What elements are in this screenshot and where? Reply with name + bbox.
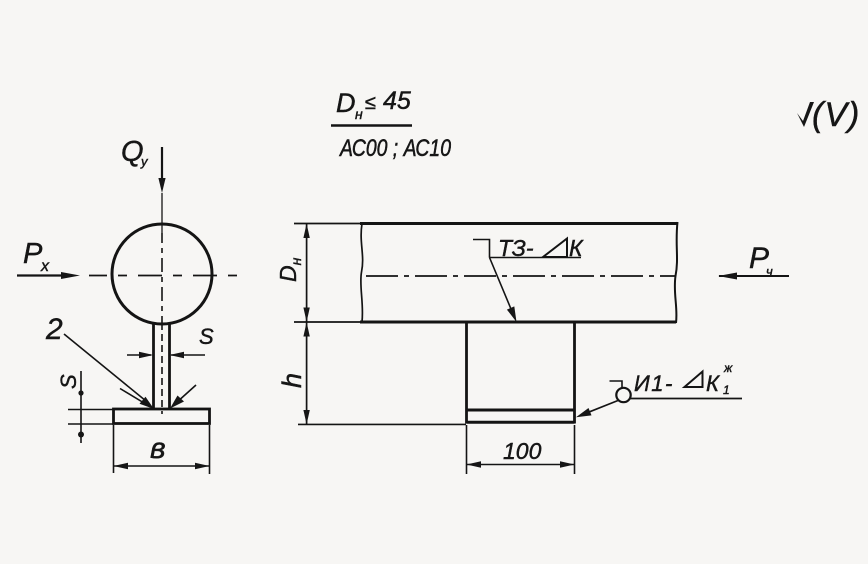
svg-text:К: К bbox=[706, 371, 720, 396]
svg-text:S: S bbox=[199, 324, 214, 349]
svg-text:1: 1 bbox=[723, 383, 730, 397]
svg-text:S: S bbox=[56, 374, 81, 389]
svg-text:К: К bbox=[569, 235, 584, 261]
svg-text:D: D bbox=[336, 88, 356, 118]
svg-text:х: х bbox=[40, 258, 50, 275]
svg-text:ж: ж bbox=[723, 361, 733, 375]
svg-text:2: 2 bbox=[45, 313, 63, 346]
svg-text:≤: ≤ bbox=[365, 92, 376, 114]
svg-text:И1-: И1- bbox=[634, 371, 674, 396]
svg-text:ТЗ-: ТЗ- bbox=[498, 235, 534, 261]
svg-text:100: 100 bbox=[503, 438, 542, 464]
svg-text:(V): (V) bbox=[812, 96, 860, 134]
svg-text:ч: ч bbox=[766, 264, 773, 279]
svg-text:АС00 ; АС10: АС00 ; АС10 bbox=[338, 134, 451, 161]
svg-text:h: h bbox=[277, 373, 307, 388]
svg-text:в: в bbox=[150, 432, 166, 465]
svg-text:Р: Р bbox=[23, 238, 43, 270]
svg-text:н: н bbox=[355, 106, 363, 122]
svg-text:45: 45 bbox=[383, 87, 411, 115]
